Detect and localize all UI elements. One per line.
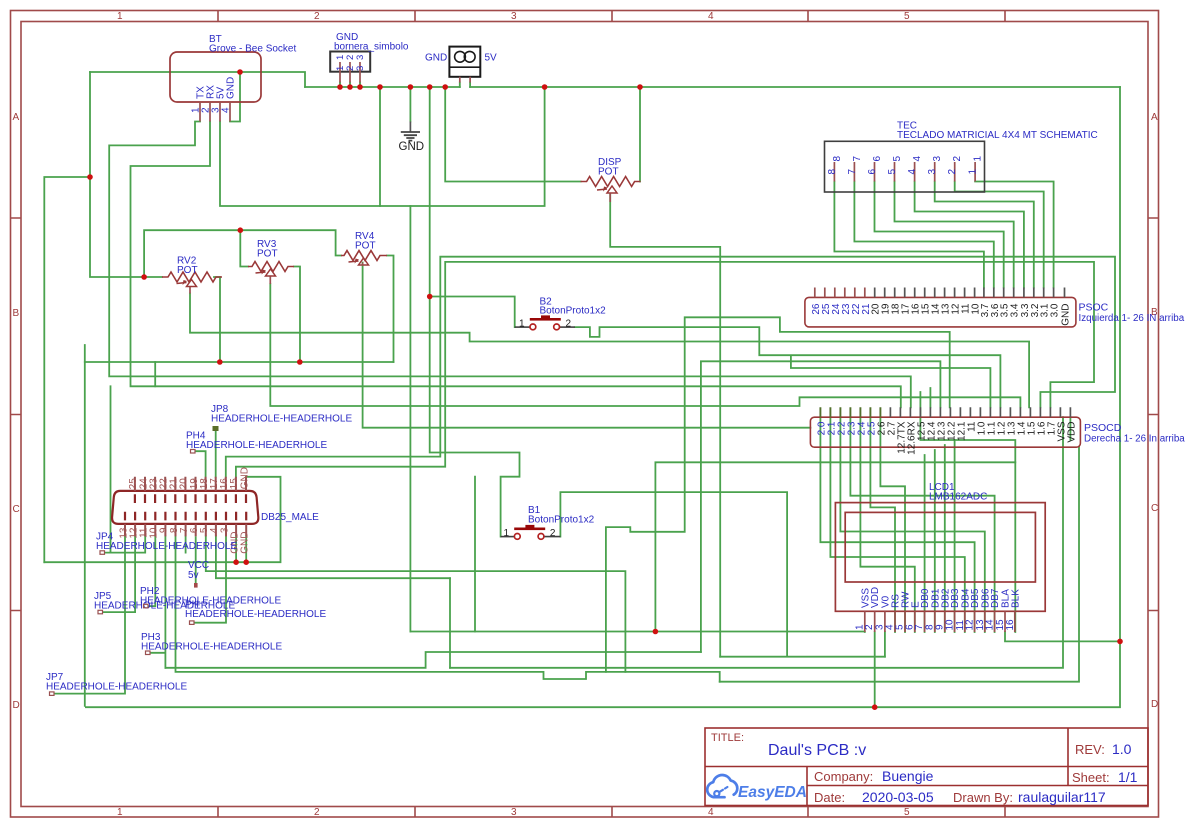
wire LCD BLA <box>1005 632 1120 641</box>
wire DISP right <box>639 87 641 182</box>
svg-text:4: 4 <box>912 156 923 162</box>
wire TEC cascade 6 <box>875 182 1004 288</box>
svg-text:PSOCD: PSOCD <box>1084 422 1122 434</box>
junction (360,87) <box>357 84 363 90</box>
svg-text:HEADERHOLE-HEADERHOLE: HEADERHOLE-HEADERHOLE <box>186 440 327 451</box>
svg-text:6: 6 <box>872 156 883 162</box>
wire x429 B2-B1 drop <box>430 87 520 537</box>
svg-text:DB25_MALE: DB25_MALE <box>261 512 319 523</box>
wire LCD DB0-DB3 drops <box>925 440 955 632</box>
svg-text:1/1: 1/1 <box>1118 769 1138 785</box>
svg-text:1: 1 <box>117 807 123 818</box>
svg-text:8: 8 <box>832 156 843 162</box>
wire TEC cascade 5 <box>895 182 1014 288</box>
svg-text:3: 3 <box>355 66 366 71</box>
wire BT pin3 5V rail <box>220 87 545 206</box>
wire TEC cascade 8 <box>834 182 984 288</box>
wire rail A pin8 <box>176 536 720 681</box>
wire PH4 <box>196 451 206 477</box>
svg-text:A: A <box>1151 112 1158 123</box>
svg-text:GND: GND <box>239 467 250 489</box>
wire TEC cascade 2 <box>955 182 1044 288</box>
wire x684 jog path <box>606 317 950 672</box>
wire PSOCD 12.5 to LCD BLK rail <box>920 388 1015 462</box>
wire LCD DB4 from 2.1 <box>830 417 964 632</box>
svg-text:6: 6 <box>867 169 878 175</box>
junction (90,177) <box>87 174 93 180</box>
junction (445.2,87) <box>442 84 448 90</box>
header hole PH2 <box>140 586 281 608</box>
svg-text:POT: POT <box>257 249 278 260</box>
wire RV2 wiper to PSOCD 12.2 <box>190 294 1029 408</box>
junction (350,87) <box>347 84 353 90</box>
junction (340,87) <box>337 84 343 90</box>
wire RV3 wiper to PSOCD 1.4 <box>270 284 1020 407</box>
svg-text:4: 4 <box>708 11 714 22</box>
frame row ticks right <box>1148 218 1159 611</box>
junction (874.7,707.2) <box>872 704 878 710</box>
potentiometer DISP POT <box>581 157 641 202</box>
wire rail 368 to PSOCD 1.1 <box>791 356 991 407</box>
svg-text:BLK: BLK <box>1010 589 1021 608</box>
junction (410.4,87) <box>408 84 414 90</box>
push button B2 BotonProto1x2 <box>515 297 606 330</box>
svg-text:HEADERHOLE-HEADERHOLE: HEADERHOLE-HEADERHOLE <box>141 642 282 653</box>
wire rail 667 right to PSOCD VSS <box>450 417 1063 668</box>
keypad TEC TECLADO MATRICIAL 4X4 MT SCHEMATIC <box>825 121 1098 193</box>
svg-text:HEADERHOLE-HEADERHOLE: HEADERHOLE-HEADERHOLE <box>96 541 237 552</box>
DB25_MALE connector <box>112 467 319 554</box>
wire rail 578 pin5 <box>216 536 450 578</box>
header hole JP8 <box>211 404 352 431</box>
svg-text:DB7: DB7 <box>990 588 1001 608</box>
wire VSS rail <box>410 631 864 634</box>
svg-text:3: 3 <box>355 55 366 60</box>
svg-text:PSOC: PSOC <box>1079 302 1109 314</box>
svg-text:Sheet:: Sheet: <box>1072 770 1110 785</box>
svg-text:REV:: REV: <box>1075 742 1105 757</box>
svg-text:C: C <box>13 504 20 515</box>
svg-text:Izquierda 1- 26 IN arriba: Izquierda 1- 26 IN arriba <box>1079 313 1185 324</box>
wire bornera pins to rail <box>340 83 360 88</box>
svg-text:14: 14 <box>985 619 996 631</box>
VCC 5v flag <box>188 536 209 587</box>
wire LCD RW from 2.6 <box>880 417 905 632</box>
wire RV4 wiper rail 427 <box>363 263 811 428</box>
svg-text:POT: POT <box>598 167 619 178</box>
wire PH2 <box>149 536 156 606</box>
junction (299.8,362) <box>297 359 303 365</box>
wire BT feed <box>90 72 305 87</box>
svg-text:4: 4 <box>221 107 232 113</box>
wire PH3 long net <box>165 652 701 668</box>
svg-text:2: 2 <box>947 169 958 175</box>
svg-text:GND: GND <box>1061 304 1072 326</box>
svg-text:raulaguilar117: raulaguilar117 <box>1018 789 1106 805</box>
wire LCD E from 2.4 <box>860 417 914 632</box>
svg-text:B: B <box>13 308 20 319</box>
frame row ticks left <box>11 218 22 611</box>
svg-text:4: 4 <box>708 807 714 818</box>
title block <box>705 728 1148 806</box>
svg-text:HEADERHOLE-HEADERHOLE: HEADERHOLE-HEADERHOLE <box>140 596 281 607</box>
svg-text:5V: 5V <box>485 53 498 64</box>
svg-text:16: 16 <box>1005 619 1016 631</box>
wire gnd stub <box>409 87 411 122</box>
wire RV2 right <box>214 277 220 362</box>
wire TEC cascade 7 <box>854 182 993 288</box>
wire RV4 right <box>387 256 394 363</box>
header hole PH3 <box>141 632 282 655</box>
svg-text:5: 5 <box>904 11 910 22</box>
ground symbol GND <box>399 122 425 154</box>
wire PH <box>195 536 227 622</box>
svg-text:EasyEDA: EasyEDA <box>738 784 807 801</box>
junction (246.2,562.2) <box>243 559 249 565</box>
svg-text:GND: GND <box>425 53 447 64</box>
svg-text:Grove - Bee Socket: Grove - Bee Socket <box>209 44 296 55</box>
svg-text:5: 5 <box>887 169 898 175</box>
frame column ticks top <box>218 11 1005 22</box>
wire mid vertical x475 <box>474 477 476 632</box>
frame column ticks bottom <box>218 807 1005 818</box>
junction (219.8,362) <box>217 359 223 365</box>
svg-text:2: 2 <box>566 319 572 330</box>
svg-text:5: 5 <box>904 807 910 818</box>
svg-text:1: 1 <box>973 156 984 162</box>
svg-text:Date:: Date: <box>814 790 845 805</box>
wire x1120 long right vertical <box>86 87 1120 707</box>
header PSOC Izquierda 1- 26 IN arriba <box>805 288 1185 327</box>
junction (640,87) <box>637 84 643 90</box>
svg-text:TITLE:: TITLE: <box>711 732 744 744</box>
wire LCD DB5 from 2.0 <box>820 417 974 632</box>
svg-text:5: 5 <box>892 156 903 162</box>
svg-text:Derecha 1- 26 In arriba: Derecha 1- 26 In arriba <box>1084 434 1185 445</box>
wire rail 462 BLK <box>655 462 1015 632</box>
wire TEC cascade 1 <box>975 182 1054 288</box>
header hole JP7 <box>46 672 187 695</box>
potentiometer RV4 POT <box>341 231 387 266</box>
svg-text:POT: POT <box>355 241 376 252</box>
svg-text:3: 3 <box>927 169 938 175</box>
wire JP8 <box>215 431 217 477</box>
svg-text:Daul's PCB :v: Daul's PCB :v <box>768 742 866 759</box>
header hole JP5 <box>94 591 235 614</box>
svg-text:3: 3 <box>932 156 943 162</box>
wire RV3 left drop <box>240 230 248 266</box>
svg-text:1: 1 <box>117 11 123 22</box>
LCD1 LMB162ADC <box>835 482 1045 632</box>
wire TEC cascade 4 <box>915 182 1024 288</box>
wire BT pin4 to junction <box>230 72 240 122</box>
wire LCD V0 drop <box>884 632 886 657</box>
EasyEDA logo <box>707 775 807 801</box>
wire gnd spur left <box>44 177 90 562</box>
potentiometer RV3 POT <box>248 239 294 284</box>
svg-text:7: 7 <box>852 156 863 162</box>
header hole PH <box>185 600 326 625</box>
wire RV rail 230 to RV4 left <box>144 230 341 277</box>
junction (380,87) <box>377 84 383 90</box>
svg-text:7: 7 <box>847 169 858 175</box>
header PSOCD Derecha 1- 26 In arriba <box>810 407 1185 447</box>
wire x155 riser <box>154 362 156 386</box>
wire BT pin2 RX to PSOCD 12.7TX <box>131 122 901 408</box>
svg-text:Company:: Company: <box>814 769 873 784</box>
wire rail 571 pin6 <box>206 536 626 672</box>
wire B2 pin1 feed <box>430 297 515 328</box>
wire 5V rail top <box>305 86 1120 88</box>
connector GND bornera_simbolo <box>330 32 409 83</box>
wire left drop x90 to RV2 <box>90 72 162 277</box>
junction (1120,641.4) <box>1117 639 1123 645</box>
wire JP5 <box>103 536 135 612</box>
svg-text:2: 2 <box>314 807 320 818</box>
junction (544.6,87) <box>542 84 548 90</box>
wire x1095 to PSOCD 2.0 <box>236 262 1094 477</box>
svg-text:BotonProto1x2: BotonProto1x2 <box>528 514 595 525</box>
wire x84 left verticals <box>84 345 86 706</box>
svg-text:POT: POT <box>177 265 198 276</box>
junction (655.4,631.5) <box>653 629 659 635</box>
wire x110 drop to JP4 rail <box>110 386 112 552</box>
svg-text:D: D <box>1151 699 1158 710</box>
svg-text:2: 2 <box>550 528 556 539</box>
wire x380 drop <box>379 87 381 206</box>
svg-text:GND: GND <box>240 532 251 554</box>
svg-text:VDD: VDD <box>1066 422 1077 443</box>
push button B1 BotonProto1x2 <box>501 505 595 539</box>
svg-text:2: 2 <box>952 156 963 162</box>
svg-text:2: 2 <box>314 11 320 22</box>
potentiometer RV2 POT <box>162 256 222 294</box>
svg-text:2020-03-05: 2020-03-05 <box>862 789 934 805</box>
svg-text:GND: GND <box>226 77 237 99</box>
svg-text:3.0: 3.0 <box>1050 303 1061 317</box>
svg-text:LMB162ADC: LMB162ADC <box>929 492 987 503</box>
wire LCD DB6 from 2.2 <box>840 417 984 632</box>
wire BT pin1 TX to PSOCD 12.6RX <box>109 122 911 408</box>
svg-text:HEADERHOLE-HEADERHOLE: HEADERHOLE-HEADERHOLE <box>185 609 326 620</box>
svg-text:1: 1 <box>519 319 525 330</box>
svg-text:8: 8 <box>827 169 838 175</box>
header hole PH4 <box>186 431 327 454</box>
wire 5V sym pins to rail <box>460 83 470 88</box>
wire RV3 right <box>294 267 300 363</box>
svg-text:C: C <box>1151 503 1158 514</box>
svg-text:5v: 5v <box>188 570 199 581</box>
wire rail 362 <box>85 361 394 363</box>
svg-text:A: A <box>13 112 20 123</box>
svg-text:Drawn By:: Drawn By: <box>953 790 1013 805</box>
junction (236.1,562.2) <box>233 559 239 565</box>
svg-text:1: 1 <box>968 169 979 175</box>
svg-text:Buengie: Buengie <box>882 768 934 784</box>
svg-text:HEADERHOLE-HEADERHOLE: HEADERHOLE-HEADERHOLE <box>46 682 187 693</box>
svg-text:3: 3 <box>511 807 517 818</box>
svg-text:1: 1 <box>504 528 510 539</box>
wire LCD RS from 2.5 <box>870 417 895 632</box>
connector BT Grove - Bee Socket <box>170 34 296 122</box>
wire PSOCD VDD drop <box>720 417 1079 682</box>
header hole JP4 <box>96 532 237 555</box>
wire B1 pin2 to LCD V0 <box>560 492 885 657</box>
svg-text:BotonProto1x2: BotonProto1x2 <box>540 306 607 317</box>
wire DISP wiper <box>610 194 720 657</box>
svg-text:1.0: 1.0 <box>1112 741 1132 757</box>
svg-text:4: 4 <box>907 169 918 175</box>
svg-text:TECLADO MATRICIAL 4X4 MT SCHEM: TECLADO MATRICIAL 4X4 MT SCHEMATIC <box>897 130 1098 141</box>
svg-text:HEADERHOLE-HEADERHOLE: HEADERHOLE-HEADERHOLE <box>211 414 352 425</box>
svg-text:D: D <box>13 700 20 711</box>
wire DISP left <box>445 87 580 182</box>
wire LCD VDD drop <box>874 632 876 707</box>
junction (144.1,277) <box>141 274 147 280</box>
junction (240,72) <box>237 69 243 75</box>
junction (429.7,296.5) <box>427 294 433 300</box>
svg-text:bornera_simbolo: bornera_simbolo <box>334 42 409 53</box>
junction (429.7,87) <box>427 84 433 90</box>
wire TEC cascade 3 <box>935 182 1034 288</box>
wire LCD DB7 from 2.3 <box>850 417 994 632</box>
wire pin7 drop <box>185 536 187 552</box>
wire B2 pin2 to PSOCD 1.2 <box>575 327 1001 407</box>
wire JP4 <box>105 536 145 552</box>
wire rail 391 to PSOCD 11 <box>226 257 1115 477</box>
junction (240.3,230.2) <box>238 227 244 233</box>
wire mid vertical x450 <box>449 578 451 668</box>
wire net363 psoc area <box>701 361 941 652</box>
svg-text:3: 3 <box>511 11 517 22</box>
svg-text:GND: GND <box>399 141 425 153</box>
power symbol GND / 5V <box>425 47 497 83</box>
wire DB25 gnd rail <box>44 477 280 562</box>
wire JP7 pin13 <box>55 536 125 693</box>
wire PH3 <box>151 536 166 667</box>
wire x406 long drop <box>409 206 411 632</box>
